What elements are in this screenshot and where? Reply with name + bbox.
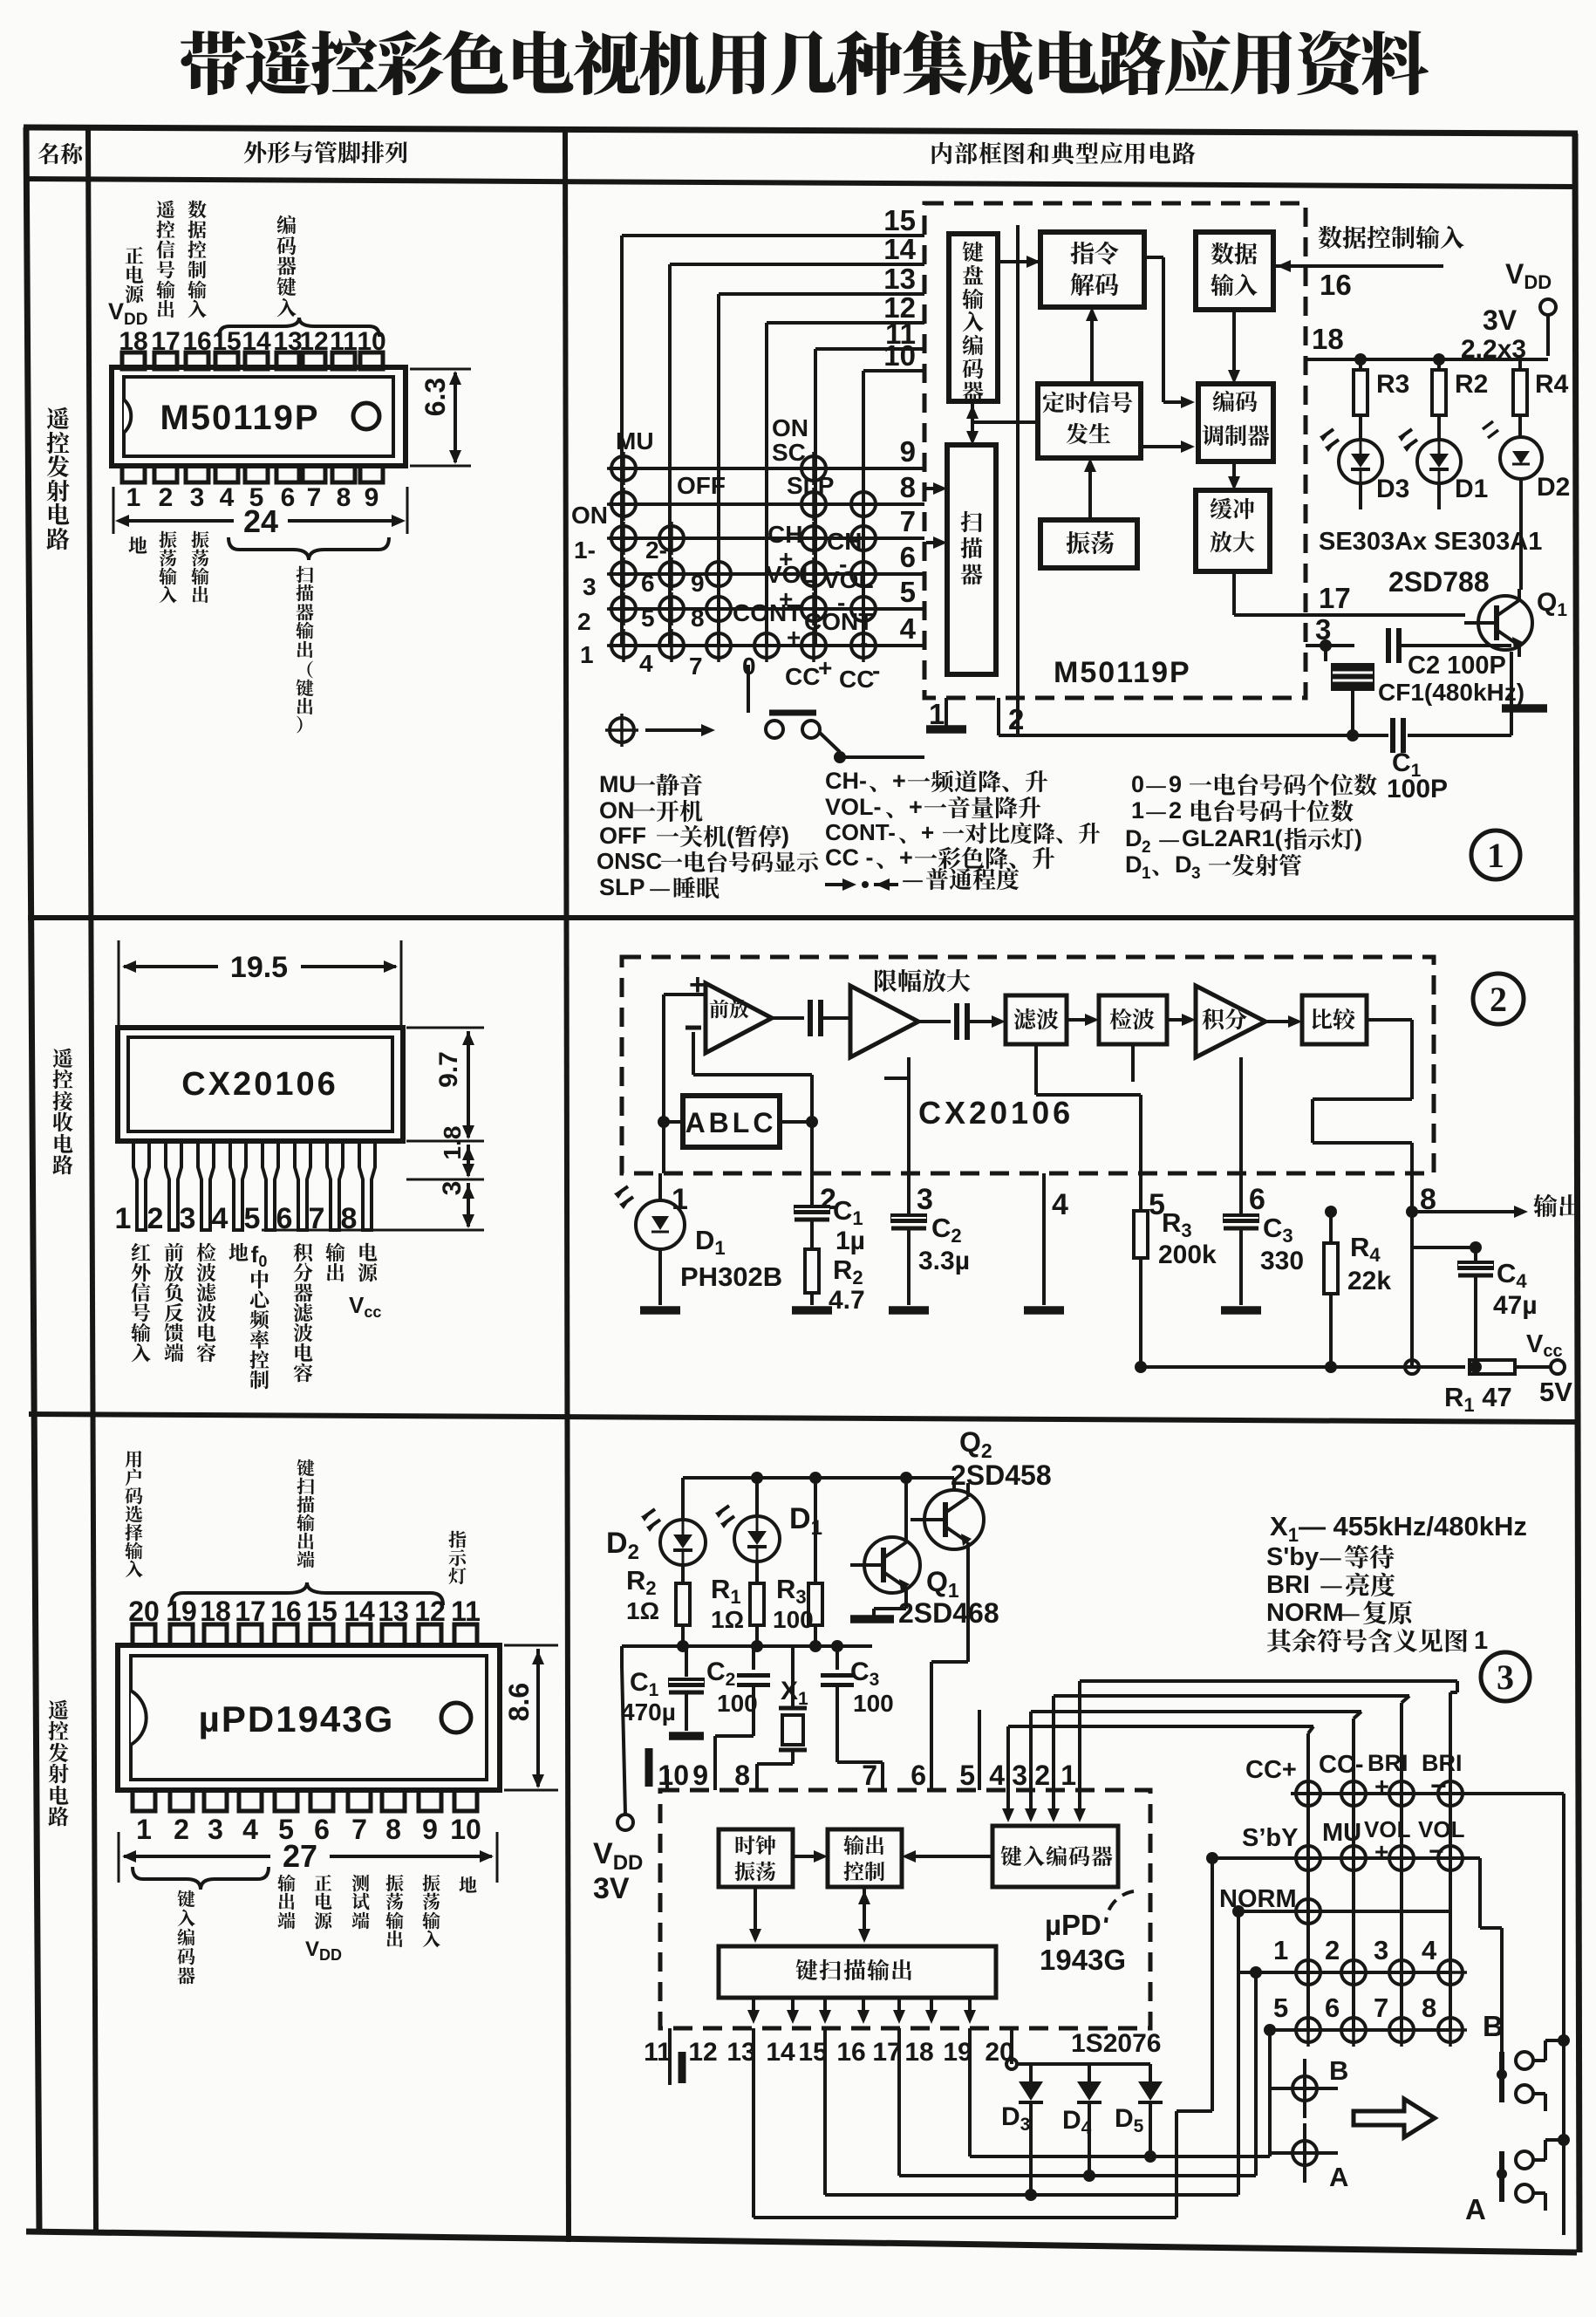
svg-text:CONT-: CONT- — [825, 819, 896, 845]
svg-text:1: 1 — [580, 641, 594, 668]
arrows pins into encoder — [1002, 1790, 1086, 1822]
label limiter amp — [875, 969, 970, 992]
svg-text:1Ω: 1Ω — [711, 1606, 744, 1633]
brace pins 19-12 — [171, 1582, 443, 1605]
node Vdd terminal — [1505, 258, 1556, 356]
label X1 — [781, 1677, 808, 1709]
wire nest pin17 to row14 — [899, 1966, 1262, 2176]
svg-text:(: ( — [726, 823, 734, 849]
keypad row NORM wire — [1238, 1910, 1450, 1913]
svg-text:3.3µ: 3.3µ — [918, 1247, 970, 1275]
crystal X1 — [757, 1646, 807, 1790]
svg-text:1: 1 — [1142, 865, 1151, 883]
pin 16 label — [1320, 269, 1352, 301]
svg-text:2: 2 — [1490, 980, 1507, 1019]
dimension 1.8 — [406, 1126, 484, 1179]
resistor R2 vert — [805, 1249, 819, 1305]
svg-text:100: 100 — [853, 1690, 894, 1717]
svg-text:1Ω: 1Ω — [626, 1597, 659, 1624]
svg-text:Q2: Q2 — [959, 1426, 992, 1462]
row1 label remote transmit — [46, 407, 69, 550]
svg-text:R2: R2 — [833, 1254, 863, 1288]
svg-text:2: 2 — [174, 1814, 189, 1845]
svg-text:R1: R1 — [711, 1574, 741, 1608]
wire detector to integrator — [1167, 1014, 1196, 1026]
brace encoder keys pins 15-10 — [219, 318, 379, 337]
svg-text:ON: ON — [599, 797, 635, 824]
wire nest pin15 to NORM — [825, 1905, 1245, 2195]
IC uPD1943G dashed outline — [660, 1790, 1150, 2028]
label indicator lamp — [448, 1531, 466, 1585]
legend VOL — [825, 794, 1040, 820]
svg-text:X1— 455kHz/480kHz: X1— 455kHz/480kHz — [1270, 1511, 1527, 1546]
LED D1 — [1398, 429, 1461, 483]
resistor R1 row3 — [750, 1562, 764, 1646]
pin number labels cx20106 — [672, 1183, 1436, 1221]
label 2SD788 — [1388, 566, 1490, 598]
keypad row SbY wire — [1212, 1856, 1480, 1860]
wires key rows to pins 9-4 — [609, 468, 924, 646]
svg-text:C1: C1 — [833, 1195, 863, 1229]
svg-text:SLP: SLP — [787, 472, 834, 499]
ground Q1 emitter row3 — [850, 1600, 906, 1619]
pin 1 ground — [926, 698, 966, 729]
svg-text:1: 1 — [1273, 1935, 1288, 1965]
wire arrows into scanner — [926, 482, 947, 549]
svg-text:8: 8 — [691, 605, 705, 632]
pin label scanner output keyout — [296, 566, 313, 658]
wire comparator down pin8 — [1313, 1020, 1412, 1173]
svg-text:D: D — [1125, 825, 1142, 851]
capacitor C1 electrolytic — [795, 1173, 829, 1249]
pin numbers row3 bottom — [644, 2038, 1014, 2067]
label key input encoder pins — [177, 1890, 194, 1985]
svg-text:CF1(480kHz): CF1(480kHz) — [1378, 679, 1524, 706]
svg-text:CC+: CC+ — [1245, 1756, 1297, 1784]
wire pin16 to data input — [1273, 260, 1443, 272]
keypad column wires — [1308, 1781, 1450, 2030]
diode D3 row3 — [1019, 2064, 1043, 2201]
svg-text:13: 13 — [726, 2038, 755, 2067]
svg-text:CC -: CC - — [825, 844, 874, 871]
svg-text:+: + — [899, 844, 913, 871]
svg-text:12: 12 — [688, 2038, 717, 2067]
block comparator — [1302, 995, 1367, 1044]
label C1 100P — [1387, 748, 1448, 803]
wire pin5 stub — [978, 1710, 981, 1790]
block filter — [1006, 995, 1067, 1044]
pin numbers 1-9 — [126, 483, 379, 512]
block keyboard input encoder — [949, 234, 998, 401]
keypad row CC wire — [1291, 1792, 1558, 1795]
svg-text:CC: CC — [839, 666, 874, 693]
svg-text:R3: R3 — [776, 1574, 807, 1608]
svg-text:9: 9 — [365, 483, 379, 512]
dimension 3 — [262, 1181, 484, 1230]
capacitor C1 — [1393, 718, 1403, 753]
integrator triangle — [1196, 986, 1265, 1057]
svg-text:9: 9 — [692, 1760, 708, 1791]
pin numbers 9-4 — [900, 435, 917, 645]
keypad digit labels — [1273, 1935, 1437, 2023]
label R1 47 — [1444, 1382, 1512, 1416]
wire CC row to switch B — [1480, 1794, 1564, 2235]
svg-text:A: A — [1329, 2162, 1348, 2192]
block ABLC — [683, 1096, 780, 1147]
svg-text:3: 3 — [1374, 1935, 1388, 1965]
svg-text:4: 4 — [639, 650, 653, 677]
svg-text:4.7: 4.7 — [829, 1286, 865, 1315]
wire timing gen to modulator — [1139, 441, 1195, 453]
wire integrator to comparator — [1265, 1015, 1302, 1028]
svg-text:1: 1 — [115, 1202, 132, 1235]
label key A — [1329, 2162, 1348, 2192]
label R4 — [1535, 370, 1569, 399]
svg-text:ABLC: ABLC — [685, 1107, 777, 1138]
wire pin20 diode rail — [1006, 2028, 1150, 2069]
label D5 row3 — [1115, 2104, 1144, 2136]
svg-text:VDD: VDD — [1505, 258, 1552, 293]
block oscillator — [1040, 520, 1137, 568]
capacitor C2 electrolytic — [891, 1173, 926, 1305]
svg-text:1S2076: 1S2076 — [1071, 2029, 1161, 2058]
wire pin2 bottom rail — [999, 652, 1511, 735]
svg-text:MU: MU — [1322, 1819, 1361, 1847]
svg-text:OFF: OFF — [599, 823, 646, 849]
wire encoder to outctl — [902, 1850, 992, 1862]
block detector — [1099, 995, 1167, 1044]
svg-text:7: 7 — [862, 1760, 877, 1791]
legend digits 0-9 — [1131, 771, 1377, 797]
svg-text:27: 27 — [283, 1838, 317, 1874]
svg-text:330: 330 — [1260, 1247, 1304, 1275]
figure number 1 — [1471, 830, 1520, 879]
svg-text:24: 24 — [243, 503, 278, 539]
svg-text:Q1: Q1 — [1537, 588, 1567, 620]
svg-text:100: 100 — [773, 1606, 814, 1633]
label C1 1u — [833, 1195, 865, 1255]
label data control input — [1319, 226, 1464, 249]
switch B — [1497, 2040, 1561, 2111]
svg-text:200k: 200k — [1158, 1241, 1217, 1269]
svg-text:6: 6 — [281, 483, 296, 512]
ground pin4 — [1024, 1306, 1064, 1315]
sip pin labels — [131, 1241, 381, 1389]
opamp preamp — [685, 968, 772, 1053]
label output pin — [277, 1874, 295, 1929]
header underline — [26, 179, 1575, 187]
wire preamp to cap — [772, 1016, 804, 1020]
arrow to switches — [1354, 2099, 1435, 2137]
svg-text:CC: CC — [785, 663, 820, 690]
wire pin4 ground — [1042, 1173, 1046, 1305]
legend normal degree — [825, 878, 898, 891]
wire encoder down to scanner — [966, 401, 979, 445]
svg-text:1: 1 — [1487, 836, 1504, 875]
block command decoder — [1040, 232, 1144, 307]
IC uPD1943G body — [118, 1645, 500, 1790]
svg-text:1µ: 1µ — [836, 1227, 865, 1255]
LED D3 — [1320, 429, 1382, 483]
block clock osc — [719, 1829, 793, 1887]
svg-text:+: + — [1374, 1838, 1388, 1865]
switch pushbutton — [748, 665, 924, 763]
label D3 — [1376, 475, 1409, 503]
label R2 — [1455, 370, 1488, 399]
svg-text:CC-: CC- — [1319, 1751, 1364, 1779]
pin label encoder key input — [277, 215, 297, 318]
svg-text:S'by: S'by — [1266, 1543, 1319, 1571]
svg-text:5: 5 — [900, 576, 916, 608]
svg-text:): ) — [1354, 825, 1362, 851]
svg-text:7: 7 — [689, 653, 703, 680]
block key input encoder row3 — [992, 1826, 1118, 1887]
wire switch A feed — [1545, 2034, 1570, 2146]
dimension 8.6 — [503, 1645, 558, 1790]
label D2 — [1537, 473, 1570, 502]
title text — [181, 30, 1429, 95]
svg-text:3: 3 — [1497, 1657, 1514, 1697]
svg-text:VDD: VDD — [593, 1837, 643, 1875]
legend CONT — [825, 819, 1100, 845]
svg-text:D3: D3 — [1001, 2102, 1030, 2135]
wires key columns from pins 15-10 — [622, 236, 924, 646]
label Q1 2SD468 — [898, 1566, 999, 1629]
svg-text:2: 2 — [1325, 1935, 1340, 1965]
wire CF1 to rail — [1347, 689, 1359, 742]
diode D4 row3 — [1077, 2064, 1102, 2182]
svg-text:16: 16 — [836, 2038, 865, 2067]
svg-text:+: + — [1374, 1774, 1389, 1801]
svg-text:9: 9 — [900, 435, 916, 468]
legend OFF — [599, 823, 789, 849]
svg-text:2: 2 — [1008, 703, 1024, 735]
keypad row 5-8 wire — [1270, 2028, 1450, 2032]
svg-text:18: 18 — [904, 2038, 933, 2067]
svg-text:NORM: NORM — [1219, 1885, 1297, 1913]
wire nest pin13 to SbY — [754, 1852, 1218, 2218]
keypad labels mid — [1242, 1816, 1465, 1866]
svg-text:R2: R2 — [626, 1565, 657, 1599]
wire timing gen up to decoder — [1086, 307, 1098, 384]
dimension 9.7 height — [406, 1028, 484, 1141]
svg-text:µPD1943G: µPD1943G — [199, 1698, 395, 1739]
svg-text:R3: R3 — [1376, 370, 1409, 399]
pin11 stub — [670, 2028, 682, 2085]
header col3 — [932, 142, 1196, 164]
svg-text:C1: C1 — [630, 1668, 659, 1700]
coupling cap 1 — [810, 1000, 850, 1036]
svg-text:GL2AR1(: GL2AR1( — [1182, 825, 1283, 851]
IC M50119P dashed outline — [924, 203, 1306, 698]
svg-text:µPD: µPD — [1045, 1909, 1102, 1941]
svg-text:1: 1 — [929, 698, 945, 730]
svg-text:OFF: OFF — [677, 472, 726, 499]
limiter amp triangle — [850, 986, 918, 1057]
svg-text:SC: SC — [772, 439, 806, 466]
svg-text:17: 17 — [1319, 582, 1351, 614]
wire clock to outctl — [793, 1850, 828, 1862]
wire Vcc rail row2 — [1135, 1335, 1482, 1374]
pin 17 label — [1319, 582, 1351, 614]
svg-text:D1: D1 — [789, 1502, 822, 1540]
svg-text:2SD468: 2SD468 — [898, 1597, 999, 1629]
legend MU mute — [599, 771, 702, 797]
svg-text:2SD458: 2SD458 — [951, 1459, 1052, 1491]
brace pins 1-4 — [133, 1867, 269, 1890]
svg-text:R4: R4 — [1350, 1232, 1381, 1266]
transistor Q1 — [1464, 589, 1532, 657]
svg-text:4: 4 — [989, 1760, 1005, 1791]
label NORM — [1219, 1885, 1297, 1913]
ground D1 — [640, 1306, 680, 1315]
label D1 PH302B — [680, 1225, 782, 1292]
svg-text:4: 4 — [1052, 1188, 1068, 1221]
dimension 24 width — [113, 487, 407, 539]
svg-text:47µ: 47µ — [1493, 1291, 1538, 1320]
IC CX20106 body — [118, 1028, 403, 1141]
svg-text:16: 16 — [1320, 269, 1352, 301]
wire pin8 output node — [1406, 1173, 1528, 1367]
capacitor C3 — [1224, 1173, 1258, 1305]
wire clock down to keyscan — [749, 1887, 761, 1943]
svg-text:−: − — [1429, 1837, 1444, 1866]
svg-text:3V: 3V — [593, 1872, 630, 1905]
svg-text:4: 4 — [242, 1814, 258, 1845]
dimension 19.5 — [119, 940, 401, 1029]
resistor R3 vert row2 — [1134, 1173, 1148, 1367]
wire pin10 stub — [649, 1748, 667, 1790]
svg-text:): ) — [781, 823, 789, 849]
svg-text:D3: D3 — [1376, 475, 1409, 503]
svg-text:D: D — [1175, 851, 1192, 878]
wire pin1 to col1 — [1080, 1681, 1457, 1790]
wire limiter to cap2 — [918, 1020, 951, 1023]
svg-text:ON: ON — [571, 502, 608, 529]
legend digits 1-2 — [1131, 797, 1354, 824]
label R3 200k — [1158, 1207, 1217, 1269]
pin numbers 18-10 — [119, 327, 385, 356]
svg-text:ON: ON — [772, 414, 808, 441]
svg-text:+: + — [892, 768, 906, 794]
svg-text:3: 3 — [583, 573, 597, 600]
label Vcc 5V — [1526, 1330, 1572, 1407]
svg-text:D1: D1 — [695, 1225, 726, 1259]
svg-text:3: 3 — [917, 1183, 933, 1216]
svg-text:3: 3 — [1012, 1760, 1027, 1791]
svg-text:8: 8 — [337, 483, 351, 512]
wire Vdd rail — [1306, 353, 1548, 366]
svg-text:9: 9 — [422, 1814, 438, 1845]
svg-text:1.8: 1.8 — [439, 1126, 466, 1160]
capacitor C2 100 — [715, 1646, 770, 1790]
label C2 100 — [706, 1657, 758, 1717]
svg-text:0: 0 — [1131, 771, 1144, 797]
label D1 — [1455, 475, 1488, 503]
svg-text:6: 6 — [900, 541, 916, 573]
resistor R3 — [1354, 359, 1368, 441]
svg-text:Vcc: Vcc — [349, 1292, 381, 1321]
wire data input down to modulator — [1228, 310, 1240, 384]
svg-text:20: 20 — [985, 2038, 1013, 2067]
wire preamp minus feedback — [693, 1032, 812, 1173]
svg-text:R2: R2 — [1455, 370, 1488, 399]
wire detector down — [1131, 1044, 1135, 1082]
label C2 3.3u — [918, 1213, 970, 1275]
figure number 3 — [1481, 1652, 1530, 1701]
label switch B — [1483, 2010, 1504, 2042]
svg-text:10: 10 — [450, 1814, 481, 1845]
node Vdd row3 — [617, 1815, 633, 1830]
svg-text:18: 18 — [1312, 323, 1344, 355]
svg-text:C2: C2 — [931, 1213, 962, 1247]
svg-text:9.7: 9.7 — [434, 1051, 463, 1088]
pin numbers 15-10 — [883, 204, 916, 372]
label switch A — [1465, 2193, 1486, 2225]
dimension 6.3 height — [410, 369, 471, 466]
svg-text:A: A — [1465, 2193, 1486, 2225]
label R3 — [1376, 370, 1409, 399]
capacitor C1 470u — [669, 1646, 704, 1736]
svg-text:13: 13 — [883, 263, 916, 295]
svg-text:9: 9 — [1169, 771, 1182, 797]
pin 1 label — [929, 698, 945, 730]
label R2 1ohm — [626, 1565, 659, 1624]
IC U1 M50119P body — [112, 367, 406, 466]
pin 3 label — [1315, 613, 1331, 646]
label Q1 — [1537, 588, 1567, 620]
svg-text:5V: 5V — [1539, 1377, 1572, 1407]
svg-text:2: 2 — [577, 608, 591, 635]
svg-text:5: 5 — [1273, 1992, 1288, 2023]
label key B — [1329, 2055, 1348, 2086]
svg-text:M50119P: M50119P — [160, 399, 319, 437]
legend ON power — [599, 797, 702, 824]
wire Q2 emitter to pin6 — [931, 1548, 968, 1790]
svg-text:ONSC: ONSC — [597, 848, 662, 874]
svg-text:R4: R4 — [1535, 370, 1569, 399]
wire pin3 to resonator — [1306, 639, 1354, 661]
ground C2 — [889, 1306, 929, 1315]
pin numbers 20-11 — [128, 1596, 481, 1627]
svg-text:VDD: VDD — [305, 1938, 342, 1964]
svg-text:D2: D2 — [606, 1527, 639, 1564]
svg-text:B: B — [1329, 2055, 1348, 2086]
svg-text:MU: MU — [616, 427, 654, 455]
label R2 4.7 — [829, 1254, 865, 1315]
svg-text:C2 100P: C2 100P — [1408, 652, 1506, 680]
label osc out pin — [385, 1875, 403, 1947]
block code modulator — [1198, 384, 1273, 461]
label uPD1943G row3 — [1040, 1909, 1126, 1976]
svg-text:2: 2 — [1142, 838, 1151, 857]
label key scan out pins — [297, 1459, 314, 1569]
resistor R4 — [1513, 359, 1527, 437]
keys SbY row — [1292, 1842, 1467, 1875]
svg-text:D2: D2 — [1537, 473, 1570, 502]
label D4 row3 — [1062, 2106, 1092, 2138]
svg-text:6: 6 — [641, 570, 655, 597]
IC uPD1943G top pins — [133, 1624, 477, 1645]
wire pin4 to col4 — [1008, 1726, 1313, 1790]
svg-text:C3: C3 — [850, 1657, 879, 1690]
svg-text:C3: C3 — [1263, 1213, 1293, 1247]
svg-text:11: 11 — [644, 2038, 672, 2067]
label osc in pin — [422, 1875, 440, 1948]
keyscan output arrows to pins — [747, 1998, 976, 2024]
key standalone — [605, 714, 715, 747]
pin label remote signal output — [156, 201, 174, 318]
